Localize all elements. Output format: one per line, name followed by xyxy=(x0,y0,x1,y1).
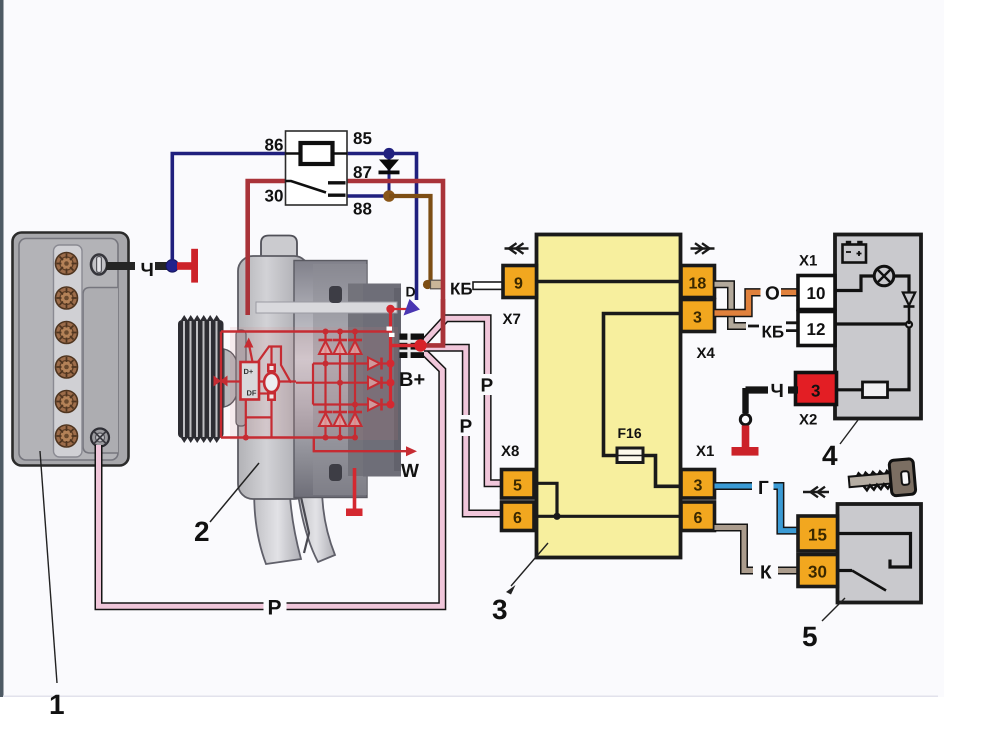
node: blue dot at 85 line xyxy=(383,148,394,159)
wire: X4-18 to cluster pin 12 (grey) xyxy=(715,284,747,326)
cluster wiring: pin12 line xyxy=(835,322,906,325)
svg-text:Р: Р xyxy=(460,417,473,438)
svg-text:85: 85 xyxy=(353,129,372,148)
svg-text:2: 2 xyxy=(194,516,210,547)
node: shaft junction dot xyxy=(386,305,394,313)
svg-text:3: 3 xyxy=(492,594,508,625)
negative diode VD6 xyxy=(348,412,362,426)
cluster wiring: right bus down to resistor xyxy=(888,328,910,390)
svg-text:К: К xyxy=(760,563,772,584)
block internal wire: pin9 to pin18 xyxy=(537,280,682,284)
svg-text:1: 1 xyxy=(49,689,65,720)
phase tap line 1 to auxiliary diode xyxy=(313,362,368,364)
wire: DF to rotor bottom xyxy=(259,392,267,394)
connector pin X4-3 xyxy=(681,300,715,332)
B+ stud bolt (black hatched) xyxy=(400,334,425,359)
node: small ring junction xyxy=(906,322,912,328)
mounting block (component 3) body xyxy=(537,235,681,558)
battery cell cap 3 xyxy=(56,322,78,344)
svg-text:X1: X1 xyxy=(799,253,817,270)
alternator schematic: phase line 3 xyxy=(354,332,356,438)
svg-text:X2: X2 xyxy=(799,412,817,429)
battery GB1 (component 1) case xyxy=(13,233,129,466)
arrow symbol top-right xyxy=(691,243,715,254)
node: junction dot xyxy=(553,513,560,520)
svg-text:5: 5 xyxy=(513,478,522,495)
wire: relay pin 85 to alternator D (dark blue) xyxy=(347,154,417,301)
svg-text:B+: B+ xyxy=(399,369,425,391)
alternator schematic: phase line 1 xyxy=(324,332,326,438)
wire: X1-6 to ignition pin 30 (brown-grey) xyxy=(715,528,799,571)
wire: shaft dot to D terminal xyxy=(391,308,410,310)
ignition switch (component 5) body xyxy=(838,504,922,603)
svg-text:О: О xyxy=(765,284,780,305)
KB terminal lug xyxy=(423,280,432,289)
wire: relay pin 87 to B+ bolt (dark red) xyxy=(347,181,443,346)
cluster wiring: pin10 to lamp xyxy=(835,276,875,291)
W terminal line and arrow xyxy=(314,438,408,452)
svg-text:3: 3 xyxy=(694,478,703,495)
white break marks on B+ bus xyxy=(387,327,393,331)
wire black battery-to-ground, segment with label Ч xyxy=(106,262,135,270)
phase tap junction dots xyxy=(323,361,359,408)
arrow symbol at ignition xyxy=(803,487,829,498)
schematic area tint overlay xyxy=(230,327,398,440)
svg-text:18: 18 xyxy=(689,276,707,293)
diode VD (relay suppression), anode at 85 line xyxy=(388,154,391,197)
svg-text:86: 86 xyxy=(265,136,284,155)
connector pin X4-18 xyxy=(681,266,715,298)
battery positive terminal (bottom, to pink wire) xyxy=(91,429,109,447)
label Р on pin6 wire xyxy=(458,415,475,436)
cluster resistor xyxy=(863,382,888,398)
svg-text:Р: Р xyxy=(481,376,494,397)
alternator schematic: phase line 2 xyxy=(339,332,341,438)
B+ bus junction diamonds xyxy=(387,360,395,409)
svg-text:X7: X7 xyxy=(503,311,521,328)
svg-text:Г: Г xyxy=(758,478,769,499)
wire: relay pin 86 to ground junction (dark blue) xyxy=(172,154,285,262)
battery negative terminal (top) xyxy=(91,255,107,275)
positive diode VD1 xyxy=(319,340,333,354)
alternator rear housing block xyxy=(348,284,401,477)
auxiliary diode VD9 xyxy=(368,399,390,411)
connector pin 10 (white) xyxy=(798,276,835,310)
svg-text:DF: DF xyxy=(247,389,257,398)
svg-text:X1: X1 xyxy=(696,443,714,460)
cluster diode xyxy=(903,293,915,325)
connector pin 30 xyxy=(798,555,838,587)
battery cell cap 2 xyxy=(56,287,78,309)
wire: X1-3 to ignition pin 15 (blue) xyxy=(715,486,799,531)
leader line to label 4 xyxy=(840,420,858,444)
arrow symbol top-left xyxy=(505,243,529,254)
connector pin X1-3 xyxy=(681,470,715,499)
ground symbol at alternator xyxy=(353,468,357,509)
connector pin X7-9 xyxy=(503,266,537,298)
battery cell cap 4 xyxy=(56,356,78,378)
svg-text:5: 5 xyxy=(802,621,818,652)
svg-text:X8: X8 xyxy=(501,443,519,460)
wire: pink B+ to block X8 pin 6 xyxy=(422,348,502,514)
svg-text:6: 6 xyxy=(513,510,522,527)
wire: relay 87 overlay above pink wires (dark red) xyxy=(424,299,443,346)
rotor field winding xyxy=(264,364,279,402)
connector pin X8-5 xyxy=(502,470,535,499)
svg-text:15: 15 xyxy=(808,526,827,545)
alternator schematic: bowtie symbol on pulley xyxy=(214,376,228,387)
ignition key icon xyxy=(848,459,916,500)
alternator schematic: bottom negative rail xyxy=(221,436,356,438)
charge warning lamp xyxy=(874,266,894,286)
connector pin X8-6 xyxy=(502,502,535,531)
node: brown dot at 88 line xyxy=(383,190,395,202)
ignition internal moving contact from pin 30 xyxy=(838,569,853,572)
alternator schematic: top positive rail xyxy=(221,330,390,332)
wire: regulator-rotor lower link xyxy=(246,401,272,438)
alternator G1 (component 2) rear lower dark housing xyxy=(299,425,351,495)
leader line to label 5 xyxy=(822,598,845,621)
alternator stud bolts xyxy=(329,286,342,303)
junction dots on rails xyxy=(323,329,359,441)
ring terminal xyxy=(740,414,750,424)
left page border line xyxy=(0,0,4,697)
block internal wire: fuse to X1-3 xyxy=(643,456,681,487)
node: blue junction dot on ground wire xyxy=(166,260,179,273)
wire: B+ bus to stud (bright red) xyxy=(391,344,421,347)
ground symbol (red, near battery) xyxy=(177,262,192,270)
voltage regulator connection to D+ arrow xyxy=(244,338,253,348)
leader line to label 1 xyxy=(40,451,57,683)
double dash to pin 12 xyxy=(786,323,798,331)
cluster wiring: resistor to pin 3 xyxy=(835,388,863,391)
alternator shaft highlight xyxy=(256,302,397,313)
block internal wire: X4-3 to fuse xyxy=(604,314,682,456)
svg-text:30: 30 xyxy=(265,187,284,206)
positive diode VD2 xyxy=(333,340,347,354)
alternator center cylinder (stator) xyxy=(294,261,367,498)
leader line to label 2 xyxy=(210,463,259,522)
svg-text:Ч: Ч xyxy=(141,260,154,281)
label Р on pin5 wire xyxy=(479,374,496,395)
voltage regulator box with D+ / DF xyxy=(241,362,260,400)
wire: white stub KB to block pin 9 xyxy=(473,282,504,289)
wire: relay pin 30 to regulator D+ (dark red) xyxy=(248,181,286,315)
leader line to label 3 xyxy=(511,543,548,586)
svg-text:W: W xyxy=(401,461,419,482)
wire: regulator ground drop xyxy=(245,400,247,438)
negative diode VD4 xyxy=(319,412,333,426)
block internal wire: X8-6 to X1-6 xyxy=(534,515,681,518)
battery cell cap 5 xyxy=(56,391,78,413)
wire: brown from relay 88 to KB terminal xyxy=(389,196,431,281)
svg-text:10: 10 xyxy=(807,284,826,303)
relay coil xyxy=(301,143,333,164)
alternator schematic: rotor feed line (behind regulator) xyxy=(221,380,296,382)
fuse F16 xyxy=(617,448,643,463)
battery cell cap 6 xyxy=(56,425,78,447)
node: B+ junction dot xyxy=(414,339,426,351)
alternator top mounting lug xyxy=(261,236,297,264)
positive diode VD3 xyxy=(348,340,362,354)
alternator pulley with belt grooves xyxy=(178,315,224,443)
wire: black X2-3 to ground xyxy=(788,386,798,393)
svg-text:Ч: Ч xyxy=(771,381,784,402)
svg-text:4: 4 xyxy=(822,440,838,471)
ground symbol (red, cluster) xyxy=(742,426,750,449)
battery charge icon xyxy=(843,241,867,263)
svg-text:87: 87 xyxy=(353,163,372,182)
phase tap line 3 to auxiliary diode xyxy=(313,403,368,405)
relay K1 box xyxy=(286,131,348,205)
connector pin 12 (white) xyxy=(798,312,835,346)
svg-text:30: 30 xyxy=(808,563,827,582)
connector pin X1-6 xyxy=(681,502,715,531)
alternator schematic: stator left rail xyxy=(220,332,222,438)
svg-text:КБ: КБ xyxy=(762,323,785,342)
label Р on battery wire xyxy=(264,594,287,618)
svg-text:12: 12 xyxy=(807,320,826,339)
relay switch contact xyxy=(286,181,327,193)
svg-text:F16: F16 xyxy=(618,425,642,441)
ignition internal contact from pin 15 xyxy=(838,534,911,568)
wire: pink battery positive to B+ bolt (via bottom run) xyxy=(99,350,443,607)
connector pin 15 xyxy=(798,516,838,551)
wire: relay pin 88 to diode junction (dark blue) xyxy=(347,194,389,198)
svg-text:6: 6 xyxy=(694,510,703,527)
svg-text:X4: X4 xyxy=(697,345,716,362)
auxiliary diode VD7 xyxy=(368,358,390,370)
alternator pulley hub xyxy=(224,330,246,426)
svg-text:9: 9 xyxy=(514,276,523,293)
B+ vertical bus xyxy=(389,309,392,405)
stator winding link vertical xyxy=(312,364,314,405)
svg-text:Р: Р xyxy=(268,597,282,620)
alternator fan/bracket lower blades xyxy=(254,460,335,564)
block internal wire: X8-5 to X8-6 bus xyxy=(534,483,557,516)
svg-text:КБ: КБ xyxy=(450,280,473,299)
phase tap line 2 (from brushes) to auxiliary diode xyxy=(296,382,368,384)
instrument cluster (component 4) body xyxy=(835,235,921,419)
svg-text:D+: D+ xyxy=(244,367,254,376)
svg-text:D: D xyxy=(406,284,416,300)
connector pin 3 (red, X2) xyxy=(796,373,837,405)
svg-text:3: 3 xyxy=(811,382,820,401)
cluster wiring: lamp to diode xyxy=(894,276,910,292)
alternator front bracket xyxy=(238,256,309,499)
arrowhead at D terminal (purple) xyxy=(404,299,421,316)
auxiliary diode VD8 xyxy=(368,377,390,389)
battery cell cap 1 xyxy=(56,253,78,275)
wire: pink B+ to block X8 pin 5 xyxy=(422,318,502,483)
svg-text:88: 88 xyxy=(353,200,372,219)
svg-text:3: 3 xyxy=(693,310,702,327)
wire: regulator to rotor top / brushes xyxy=(258,347,292,383)
wire: X4-3 to cluster pin 10 (orange) xyxy=(715,292,799,313)
negative diode VD5 xyxy=(333,412,347,426)
